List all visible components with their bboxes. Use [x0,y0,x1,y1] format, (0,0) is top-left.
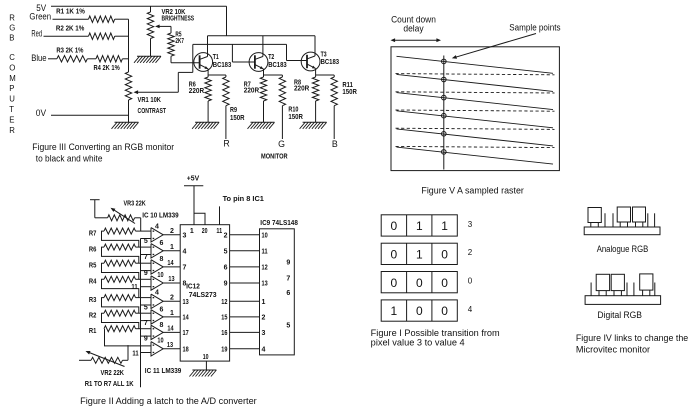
svg-text:7: 7 [183,265,187,272]
svg-text:BC183: BC183 [321,57,340,66]
svg-text:delay: delay [403,23,424,33]
svg-text:12: 12 [221,299,227,306]
svg-text:VR2 22K: VR2 22K [101,368,125,377]
svg-text:E: E [9,115,14,124]
svg-text:150R: 150R [230,113,245,122]
svg-text:14: 14 [183,315,189,322]
svg-text:150R: 150R [342,87,357,96]
svg-text:R3: R3 [89,295,97,304]
svg-text:R2: R2 [89,311,97,320]
svg-text:R2 2K 1%: R2 2K 1% [56,24,85,33]
svg-text:0: 0 [416,304,423,318]
svg-text:10: 10 [262,232,268,239]
svg-text:Microvitec monitor: Microvitec monitor [576,344,650,354]
svg-text:2: 2 [170,295,174,302]
svg-text:7: 7 [144,320,148,327]
svg-text:R5: R5 [89,261,97,270]
svg-text:19: 19 [221,346,227,353]
svg-text:G: G [278,139,285,149]
svg-text:4: 4 [155,290,159,297]
svg-text:BRIGHTNESS: BRIGHTNESS [162,14,195,23]
svg-text:Figure IV links to change the: Figure IV links to change the [576,333,688,343]
svg-text:Figure III Converting an RGB m: Figure III Converting an RGB monitor [32,142,174,152]
svg-text:BC183: BC183 [268,60,287,69]
svg-text:20: 20 [202,228,208,235]
svg-text:BC183: BC183 [213,60,232,69]
svg-text:14: 14 [167,260,173,267]
svg-text:R: R [223,139,229,149]
svg-text:0: 0 [391,219,398,233]
svg-text:0: 0 [391,248,398,262]
svg-text:6: 6 [160,240,164,247]
svg-text:13: 13 [167,342,173,349]
svg-text:11: 11 [131,284,137,291]
svg-text:15: 15 [221,315,227,322]
svg-text:9: 9 [144,270,148,277]
svg-text:+5V: +5V [187,173,200,182]
svg-text:14: 14 [167,326,173,333]
svg-text:5: 5 [224,248,228,255]
svg-text:Figure V A sampled raster: Figure V A sampled raster [421,186,524,196]
svg-text:Figure I Possible transition f: Figure I Possible transition from [371,328,500,338]
svg-text:R: R [9,13,15,22]
svg-text:Green: Green [29,12,51,22]
svg-text:1: 1 [170,244,174,251]
svg-text:8: 8 [160,322,164,329]
svg-text:4: 4 [262,346,266,353]
svg-text:1: 1 [416,248,423,262]
svg-text:11: 11 [216,228,222,235]
svg-text:9: 9 [224,281,228,288]
svg-text:Analogue RGB: Analogue RGB [597,244,649,254]
svg-text:17: 17 [183,330,189,337]
svg-text:CONTRAST: CONTRAST [138,106,167,115]
svg-text:5: 5 [144,304,148,311]
svg-text:4: 4 [155,224,159,231]
svg-text:IC 10 LM339: IC 10 LM339 [142,210,178,219]
svg-text:220R: 220R [244,86,260,95]
svg-text:R1 1K 1%: R1 1K 1% [56,7,85,16]
svg-text:4: 4 [468,305,473,314]
svg-text:11: 11 [262,248,268,255]
svg-text:13: 13 [262,281,268,288]
svg-text:1: 1 [190,228,194,235]
svg-text:0: 0 [441,248,448,262]
svg-text:9: 9 [144,336,148,343]
svg-text:M: M [9,74,16,83]
svg-text:R4: R4 [89,277,97,286]
svg-text:9: 9 [286,260,290,267]
svg-text:P: P [9,84,14,93]
svg-text:1: 1 [441,219,448,233]
svg-text:MONITOR: MONITOR [261,151,288,160]
svg-text:150R: 150R [288,112,303,121]
svg-text:Blue: Blue [31,53,46,63]
svg-text:R1 TO R7 ALL 1K: R1 TO R7 ALL 1K [85,379,135,388]
svg-text:13: 13 [183,299,189,306]
svg-text:10: 10 [157,338,163,345]
svg-text:VR3 22K: VR3 22K [124,198,147,207]
svg-text:2: 2 [468,248,473,257]
svg-text:1: 1 [170,310,174,317]
svg-text:1: 1 [262,299,266,306]
svg-text:7: 7 [286,276,290,283]
svg-text:Digital RGB: Digital RGB [597,310,642,320]
svg-text:1: 1 [391,304,398,318]
svg-text:74LS273: 74LS273 [189,290,217,299]
svg-text:VR1 10K: VR1 10K [138,95,162,104]
svg-text:0: 0 [416,276,423,290]
svg-text:7: 7 [144,254,148,261]
svg-text:220R: 220R [189,86,205,95]
svg-text:O: O [9,63,15,72]
svg-text:Sample points: Sample points [509,23,561,33]
svg-text:13: 13 [168,276,174,283]
svg-text:0: 0 [441,276,448,290]
svg-text:10: 10 [203,354,209,361]
svg-text:U: U [9,95,15,104]
svg-text:B: B [9,34,14,43]
svg-text:4: 4 [183,248,187,255]
svg-text:R: R [9,126,15,135]
svg-text:10: 10 [157,272,163,279]
svg-text:To pin 8 IC1: To pin 8 IC1 [223,194,264,203]
svg-text:Red: Red [31,28,42,38]
svg-text:B: B [332,139,338,149]
svg-text:0: 0 [468,277,473,286]
svg-text:G: G [9,24,15,33]
svg-text:16: 16 [221,330,227,337]
svg-text:pixel value 3 to value 4: pixel value 3 to value 4 [371,338,465,348]
svg-text:11: 11 [132,351,138,358]
svg-text:Figure II Adding a latch to th: Figure II Adding a latch to the A/D conv… [80,396,257,406]
svg-text:2: 2 [170,228,174,235]
svg-text:6: 6 [160,306,164,313]
svg-text:2: 2 [224,232,228,239]
svg-text:220R: 220R [294,83,310,92]
svg-text:IC9 74LS148: IC9 74LS148 [260,218,298,227]
svg-text:18: 18 [183,346,189,353]
svg-text:12: 12 [262,265,268,272]
svg-text:3: 3 [183,232,187,239]
svg-text:2K7: 2K7 [175,36,184,45]
svg-text:C: C [9,53,15,62]
svg-text:0: 0 [391,276,398,290]
svg-text:5: 5 [286,322,290,329]
svg-text:R4 2K 1%: R4 2K 1% [94,63,121,72]
svg-text:0: 0 [441,304,448,318]
svg-text:IC 11 LM339: IC 11 LM339 [145,366,182,375]
svg-text:6: 6 [224,265,228,272]
svg-text:0V: 0V [36,108,46,118]
svg-text:3: 3 [468,220,473,229]
svg-text:to black and white: to black and white [36,153,103,163]
svg-text:5: 5 [144,238,148,245]
svg-text:6: 6 [286,290,290,297]
svg-text:3: 3 [262,330,266,337]
svg-text:R1: R1 [89,326,97,335]
svg-text:T: T [9,105,14,114]
svg-text:1: 1 [416,219,423,233]
svg-text:8: 8 [160,256,164,263]
svg-text:R6: R6 [89,245,97,254]
svg-text:R3 2K 1%: R3 2K 1% [56,45,83,54]
svg-text:2: 2 [262,315,266,322]
svg-text:R7: R7 [89,229,97,238]
